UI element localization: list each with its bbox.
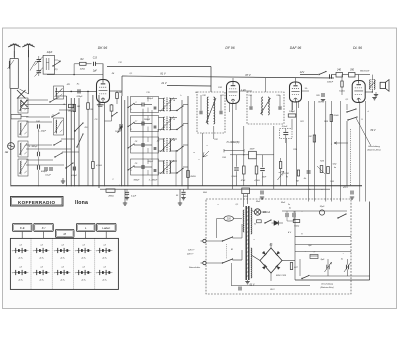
svg-text:6: 6: [131, 129, 132, 131]
svg-text:350: 350: [350, 69, 355, 72]
svg-text:AE: AE: [4, 151, 9, 154]
svg-text:+3 b+: +3 b+: [60, 279, 66, 281]
svg-text:R24: R24: [330, 180, 333, 183]
svg-text:L4: L4: [173, 99, 175, 102]
svg-text:DAF 96: DAF 96: [290, 46, 302, 50]
svg-text:+3 b+: +3 b+: [102, 279, 108, 281]
svg-text:K E: K E: [20, 226, 25, 230]
svg-text:L: L: [119, 185, 120, 187]
svg-text:160pF: 160pF: [144, 119, 151, 121]
svg-text:S1: S1: [231, 249, 233, 251]
svg-text:+3 b+: +3 b+: [39, 279, 45, 281]
svg-text:Tr: Tr: [301, 233, 303, 236]
svg-text:500pF: 500pF: [41, 171, 48, 173]
svg-text:220 V~: 220 V~: [186, 253, 195, 255]
svg-text:10nF: 10nF: [250, 148, 256, 150]
svg-text:100nF: 100nF: [327, 82, 334, 84]
svg-text:160pF: 160pF: [115, 131, 121, 133]
svg-text:+3 b+: +3 b+: [81, 279, 87, 281]
svg-text:89 V: 89 V: [371, 129, 376, 132]
svg-text:67 V: 67 V: [245, 73, 251, 77]
svg-text:1...30pF: 1...30pF: [38, 131, 47, 133]
svg-text:280Ω: 280Ω: [107, 196, 114, 198]
svg-text:Umschaltung: Umschaltung: [321, 283, 334, 286]
svg-text:K I: K I: [42, 226, 46, 230]
svg-text:7,5kΩ: 7,5kΩ: [294, 226, 300, 228]
svg-text:2M: 2M: [308, 136, 312, 138]
svg-text:125 V~: 125 V~: [188, 250, 196, 252]
svg-text:5kΩ: 5kΩ: [333, 164, 337, 166]
svg-text:250Ω: 250Ω: [189, 176, 196, 178]
svg-text:N11: N11: [67, 84, 71, 86]
svg-text:DF 96: DF 96: [225, 46, 234, 50]
svg-text:R14: R14: [222, 156, 225, 159]
svg-text:KOFFERRADIO: KOFFERRADIO: [18, 200, 55, 205]
svg-text:Laden: Laden: [102, 226, 110, 230]
svg-text:10nF: 10nF: [318, 102, 323, 104]
svg-text:Ilona: Ilona: [75, 200, 88, 206]
svg-text:24pF: 24pF: [46, 51, 53, 54]
svg-text:DL 96: DL 96: [353, 46, 362, 50]
svg-text:H≈100kΩ(B): H≈100kΩ(B): [227, 141, 240, 144]
svg-text:+3 b+: +3 b+: [102, 257, 108, 259]
svg-text:0,1M: 0,1M: [284, 173, 289, 175]
svg-text:0,1: 0,1: [346, 99, 349, 101]
svg-text:Umschaltung: Umschaltung: [368, 145, 381, 148]
svg-text:10μF: 10μF: [320, 206, 325, 208]
svg-text:10nF: 10nF: [262, 177, 267, 179]
svg-text:24 V: 24 V: [342, 186, 348, 189]
svg-text:500pF: 500pF: [71, 175, 78, 177]
svg-text:22kΩ: 22kΩ: [79, 69, 86, 71]
svg-text:1,2kΩ: 1,2kΩ: [231, 176, 237, 178]
svg-text:(Batterie-Netz): (Batterie-Netz): [367, 149, 380, 152]
svg-text:9...380pF: 9...380pF: [29, 146, 39, 148]
svg-text:5: 5: [131, 109, 132, 111]
svg-text:R21: R21: [300, 121, 303, 123]
svg-text:250pF: 250pF: [146, 98, 154, 100]
svg-text:b: b: [309, 189, 310, 191]
svg-text:Wkl.5mW: Wkl.5mW: [360, 71, 370, 73]
svg-text:100pF: 100pF: [289, 111, 296, 113]
svg-text:2kΩ: 2kΩ: [202, 192, 207, 194]
svg-text:8: 8: [131, 170, 132, 172]
svg-text:4,7kΩ: 4,7kΩ: [254, 179, 260, 182]
svg-text:12r: 12r: [305, 88, 308, 90]
svg-text:(R): (R): [55, 69, 58, 71]
svg-text:2,5nF: 2,5nF: [281, 126, 288, 128]
svg-text:+3 b+: +3 b+: [18, 257, 24, 259]
svg-text:+3 b+: +3 b+: [60, 257, 66, 259]
svg-text:(Batterie-Netz): (Batterie-Netz): [320, 286, 333, 289]
svg-text:47nF: 47nF: [241, 179, 246, 182]
svg-text:C13: C13: [93, 58, 98, 60]
svg-text:B250 C100: B250 C100: [276, 275, 287, 277]
svg-text:0,1: 0,1: [130, 73, 133, 75]
svg-text:+3 b+: +3 b+: [81, 257, 87, 259]
svg-text:200mA: 200mA: [262, 211, 271, 214]
svg-text:~50pF: ~50pF: [147, 161, 154, 163]
svg-text:+3 b+: +3 b+: [18, 279, 24, 281]
svg-text:5...380pF: 5...380pF: [149, 180, 158, 182]
svg-text:a: a: [217, 204, 218, 206]
svg-text:230: 230: [226, 219, 232, 221]
svg-text:12V: 12V: [300, 71, 305, 74]
svg-text:1,4V: 1,4V: [241, 89, 246, 92]
svg-text:a: a: [253, 239, 254, 241]
svg-text:240: 240: [336, 69, 342, 72]
svg-text:C21: C21: [220, 95, 223, 97]
svg-text:21 V: 21 V: [160, 81, 167, 85]
svg-text:8μF: 8μF: [321, 259, 325, 261]
svg-text:⊣⊢: ⊣⊢: [312, 251, 316, 254]
svg-text:25kΩ: 25kΩ: [333, 115, 339, 117]
svg-text:81 V: 81 V: [160, 72, 166, 76]
svg-text:+3 b+: +3 b+: [39, 257, 45, 259]
svg-text:a: a: [206, 145, 207, 147]
svg-text:0,1: 0,1: [236, 204, 239, 206]
svg-text:x: x: [198, 159, 200, 161]
svg-text:R1: R1: [58, 61, 61, 63]
svg-text:R4: R4: [112, 72, 114, 75]
svg-text:C24: C24: [248, 94, 251, 97]
svg-text:0,1μF: 0,1μF: [45, 175, 51, 177]
svg-text:860pF: 860pF: [134, 180, 140, 182]
svg-text:c: c: [322, 189, 323, 191]
svg-text:200pF: 200pF: [76, 96, 84, 98]
svg-text:2pF: 2pF: [92, 71, 98, 73]
svg-text:2x: 2x: [287, 204, 290, 206]
svg-text:DK 96: DK 96: [98, 46, 108, 50]
svg-text:Netzschalter: Netzschalter: [189, 266, 200, 269]
svg-text:0,1μF: 0,1μF: [131, 196, 137, 198]
svg-text:85 V: 85 V: [270, 289, 275, 291]
